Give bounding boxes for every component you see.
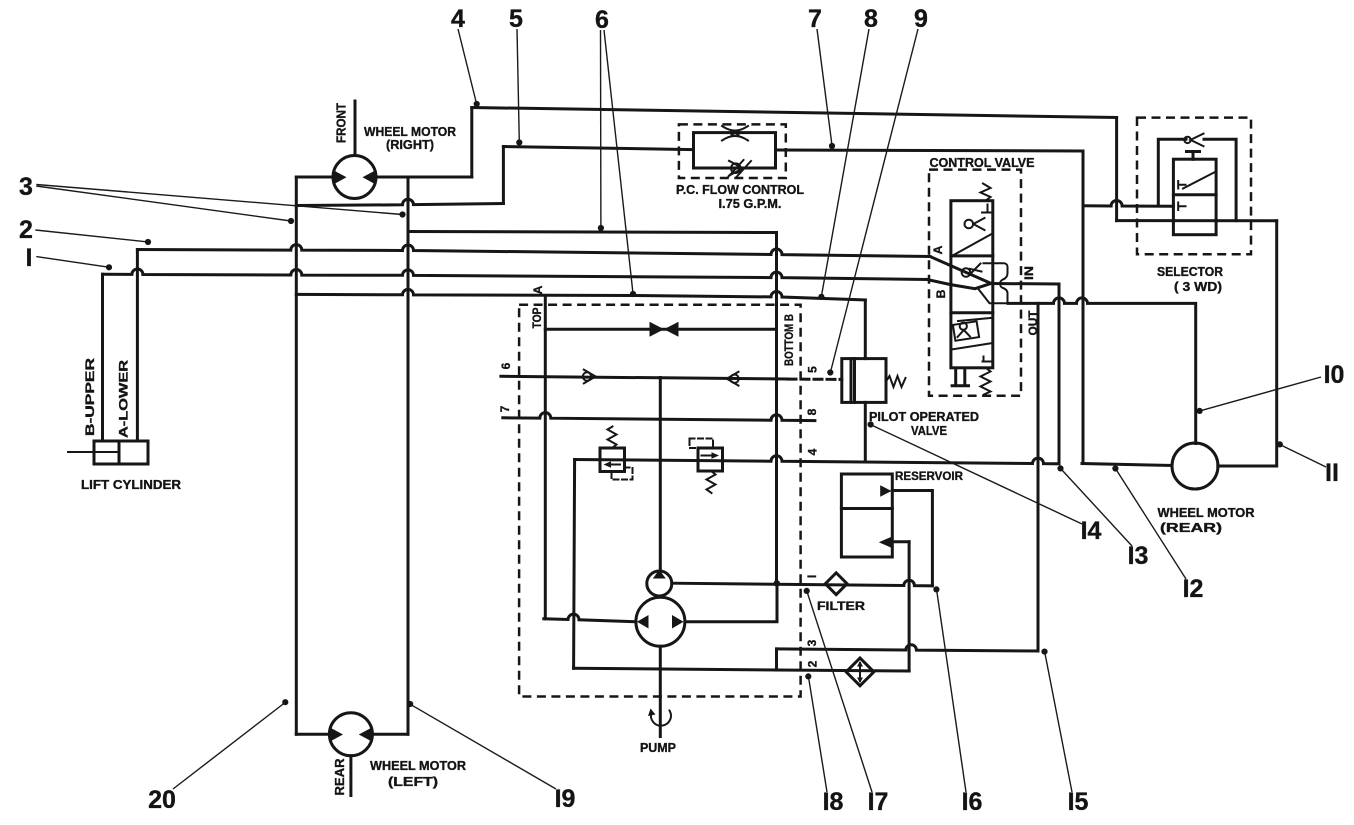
section3 T stop [983,357,994,362]
main pump circle [636,597,685,646]
control valve top spring [981,184,991,201]
cooler diamond HX1 [846,658,874,686]
leader: callout 10 [1197,377,1322,414]
leader: callout 12 [1112,465,1186,579]
leader: callout 2 [35,230,151,245]
leader: callout 18 [805,673,827,792]
reservoir tank body [841,474,892,557]
svg-text:I: I [26,244,33,272]
control valve actuator legs [952,368,968,386]
selector dashed enclosure [1137,118,1251,255]
pump rotation arrow [648,709,671,726]
svg-text:B-UPPER: B-UPPER [83,358,97,436]
svg-text:7: 7 [498,405,512,412]
wire: riser to top line (callout 4 corner) [470,108,473,178]
svg-text:5: 5 [509,5,523,33]
wire: A-LOWER vertical to lift cylinder [136,250,139,442]
svg-text:II: II [1325,459,1339,487]
wire: pilot valve bottom port to port4 line [864,402,867,461]
charge pump circle [647,571,672,596]
cooler internal arrow [857,661,863,683]
leader: callout 17 [804,588,872,792]
lift cylinder body [94,441,148,464]
svg-text:I3: I3 [1128,542,1149,570]
leader: callout 13 [1057,465,1132,546]
svg-text:8: 8 [805,408,819,415]
svg-text:I: I [805,575,819,578]
P.C. flow control dashed enclosure [679,124,786,178]
control valve dashed enclosure [929,170,1021,396]
wire: pump right port to charge junction [685,583,777,622]
relief valve RV2 spring [707,471,716,493]
wire: shutoff (bowtie) branch y=329 [545,328,776,331]
svg-text:I6: I6 [962,788,983,816]
wire: line 1 (B-UPPER) horizontal bus to control valve B approach [103,269,928,280]
svg-text:RESERVOIR: RESERVOIR [895,469,963,483]
relief valve RV2 pilot dashed box [690,439,714,449]
relief valve RV2 body [698,448,723,471]
svg-text:CONTROL VALVE: CONTROL VALVE [930,155,1035,170]
relief valve RV1 arrow [604,461,621,468]
leader: callout 5 [516,29,522,146]
control valve spool body [951,201,993,368]
wire: selector feed line with bump at x=1116.6 [1083,201,1173,207]
label: WHEEL MOTOR (RIGHT) [364,124,456,152]
wire: riser x=503 bypass up to flow-control line [502,147,505,204]
wheel motor (right) FRONT stub line [354,101,357,156]
relief valve RV2 arrow [702,452,720,459]
svg-text:4: 4 [806,448,820,455]
svg-text:3: 3 [805,639,819,646]
wire: A port diagonal through spool to waist [930,257,991,284]
wire: left vertical corner into left motor [296,733,329,736]
control valve top T stop [982,205,993,213]
lift cylinder piston rod [68,451,118,453]
wire: selector bypass loop with check valve [1158,139,1236,220]
wire: pump shaft vertical through dashed edge [659,646,662,736]
wire: charge pump feed vertical x=660.3 [659,378,662,572]
svg-text:B: B [934,289,948,298]
svg-text:9: 9 [914,5,928,33]
reservoir bottom arrow [879,536,893,548]
wire: IN line into control valve [991,282,1059,286]
wire: motor right right port east to riser [377,176,472,179]
wire: port 7 / port 8 line with bumps [503,413,815,421]
wheel motor (left) internal arrows [330,727,373,742]
selector upper T port [1178,181,1185,189]
svg-text:(LEFT): (LEFT) [388,774,438,789]
pilot operated valve spring [886,376,906,387]
leader: callout 1 [36,257,112,271]
svg-text:WHEEL MOTOR: WHEEL MOTOR [1158,505,1255,520]
svg-text:I5: I5 [1068,788,1089,816]
valve IN waist upper bracket [984,263,1008,282]
leader: callout 19 [407,701,556,789]
section3 check valve [958,323,971,337]
leader: callout 8 [818,29,869,300]
wire: return line 2 from RV1 leg through cooler to reservoir riser [574,668,910,671]
svg-text:I8: I8 [823,788,844,816]
svg-text:PUMP: PUMP [640,740,676,755]
leader: callout 14 [868,421,1083,524]
label: PILOT OPERATED VALVE [869,409,979,438]
label: P.C. FLOW CONTROL [676,182,804,211]
leader: callout 11 [1277,441,1326,467]
leader: callout 4 [458,29,480,107]
selector lower T port [1178,203,1185,211]
wire: motor bypass line y~205 with bump at x=408 [296,199,503,205]
P.C. flow control body [694,133,776,168]
svg-text:P.C. FLOW CONTROL: P.C. FLOW CONTROL [676,182,804,197]
control valve bottom spring [981,368,991,395]
relief valve RV1 pilot dashed tail [612,468,633,480]
leader: callout 3 (two arms) [36,185,405,225]
svg-text:20: 20 [148,786,176,814]
wire: 4th bus line from left vertical to pilot valve riser [296,289,865,300]
svg-text:REAR: REAR [332,759,347,796]
wire: long center vertical x=776.5 (A-line down to charge junction) [775,233,778,584]
svg-text:OUT: OUT [1026,310,1040,336]
label: WHEEL MOTOR (REAR) [1158,505,1255,535]
wheel motor (right) internal arrows [333,170,376,185]
wire: RV1 drop leg x=573.8 to return line [574,460,575,669]
svg-text:FRONT: FRONT [334,103,349,143]
wire: charge pump output to filter and reservoir corner [672,580,933,586]
selector top cap [1187,152,1200,160]
wire: return line 3 from interconnect to OUT drop [777,645,1039,651]
svg-text:I0: I0 [1324,361,1345,389]
svg-text:WHEEL MOTOR: WHEEL MOTOR [370,758,466,773]
leader: callout 15 [1041,649,1072,793]
wire: motor right left port to left long vertical [296,176,333,179]
junction: charge pump node [774,580,780,586]
pilot operated valve body [842,359,886,403]
wheel motor (left) REAR stub [349,756,352,796]
wire: pump left port line with crossover bump [544,614,636,622]
relief valve RV1 spring [608,427,617,449]
shutoff valve bowtie [650,322,679,337]
svg-text:I2: I2 [1183,575,1204,603]
svg-text:I9: I9 [555,785,576,813]
wire: flow control line (to P.C. flow control, then selector drop x=1083) [503,147,1083,152]
wire: selector feed riser x=1083 down to rear motor line [1082,151,1085,464]
leader: callout 16 [933,586,966,792]
relief valve RV1 body [600,448,625,472]
section1 check valve [965,218,985,230]
label: SELECTOR (3 WD) [1157,264,1223,294]
wire: TOP A port vertical x=545.3 [544,296,547,619]
svg-text:LIFT CYLINDER: LIFT CYLINDER [81,477,181,492]
wire: B-UPPER vertical to lift cylinder [101,274,104,441]
reservoir top arrow [880,485,891,496]
flow control bypass check valve [729,160,752,178]
section3 upper diagonal [958,318,992,321]
svg-text:A: A [531,285,545,294]
wire: reservoir bottom port [893,540,910,543]
svg-text:(REAR): (REAR) [1160,520,1222,535]
section1 flow diagonal [952,234,993,256]
filter diamond F1 [825,573,847,595]
wire: pilot valve top port riser [864,300,867,359]
svg-text:4: 4 [451,5,465,33]
wire: reservoir top port to filter line corner [892,491,932,586]
check valve CV1 on port6 line [583,370,596,384]
flow control venturi symbol [722,126,748,141]
valve IN waist lower bracket [979,285,1008,303]
wire: A bus line from x=408 east to corner x=776.5 [408,232,777,233]
svg-text:7: 7 [808,5,822,33]
wire: OUT drop corner joins return 3 (dot) [1037,650,1039,652]
svg-text:TOP: TOP [530,308,544,329]
svg-text:8: 8 [864,5,878,33]
svg-text:PILOT OPERATED: PILOT OPERATED [869,409,979,424]
leader: callout 7 [817,29,835,149]
svg-text:VALVE: VALVE [911,423,947,438]
svg-text:FILTER: FILTER [817,599,865,613]
svg-text:A: A [931,245,945,254]
label: WHEEL MOTOR (LEFT) [370,758,466,789]
wire: left long vertical (front motor to rear motor, left side) [295,177,298,734]
main pump arrows [637,615,684,629]
charge pump arrow [653,570,666,579]
selector loop check valve [1184,134,1203,147]
leader: callout 9 [827,29,918,376]
svg-text:6: 6 [499,362,513,369]
leader: callout 6 (two arms) [598,30,636,297]
wire: right long vertical x=408 (front motor to rear motor) [407,177,410,734]
svg-text:3: 3 [19,173,33,201]
wire: OUT branch drop x=1038 to return line 3 [1037,303,1040,651]
svg-text:BOTTOM B: BOTTOM B [782,314,796,366]
svg-text:SELECTOR: SELECTOR [1157,264,1223,279]
wire: port 6 line (left stub through box, becomes dashed port 5 line) [501,376,788,379]
wire: OUT line to rear wheel motor with bumps [1008,298,1196,444]
section2 check valve [962,264,982,277]
wheel motor (left) circle [329,713,372,756]
wire: right drop x=1276.7 to rear motor right port [1218,221,1277,466]
selector valve body [1173,159,1216,235]
leader: callout 20 [173,699,288,789]
wire: selector through line to right drop [1117,219,1277,222]
svg-text:2: 2 [19,216,33,244]
wire: right vertical corner into left motor [372,733,408,736]
wire: line 2 (A-LOWER) horizontal bus to control valve A approach [137,245,930,257]
wheel motor (rear) circle [1172,443,1218,489]
wire: reservoir return riser x=909.1 [908,542,911,671]
svg-text:I7: I7 [868,788,889,816]
wire: dashed pilot line to pilot operated valve (port 5) [788,378,842,381]
wire: rear motor left port line [1082,464,1172,466]
section3 tilted pilot box [953,321,979,341]
central manifold dashed enclosure [519,305,801,697]
wire: interconnect step x=776.5 [775,649,778,670]
wheel motor (right) U-motor circle [333,156,376,199]
svg-text:2: 2 [806,660,820,667]
wire: top line drop x=1116.6 [1115,118,1118,221]
svg-text:I.75 G.P.M.: I.75 G.P.M. [719,196,782,211]
check valve CV2 on port6 line [727,372,739,386]
section3 lower diagonal [952,343,993,350]
svg-text:(RIGHT): (RIGHT) [386,137,434,152]
selector section diagonal [1183,172,1216,189]
svg-text:I4: I4 [1081,517,1102,545]
wire: port 4 relief line to valve IN riser [575,284,1059,464]
wire: B port line into spool and branch to waist [927,280,991,289]
svg-text:A-LOWER: A-LOWER [117,360,131,438]
svg-text:5: 5 [806,366,820,373]
wire: top bus line (y~108-118) [472,108,1117,118]
svg-text:( 3 WD): ( 3 WD) [1174,279,1222,294]
svg-text:IN: IN [1022,266,1036,280]
svg-text:6: 6 [595,6,609,34]
